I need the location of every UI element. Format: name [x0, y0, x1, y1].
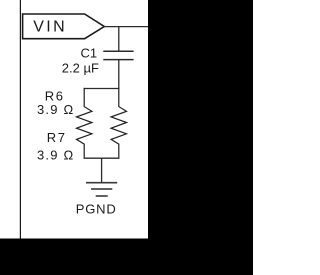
ground symbol bar 1 — [86, 182, 117, 184]
wire: resistor bottom rail — [84, 157, 120, 159]
svg-text:R7: R7 — [47, 130, 67, 145]
black mask bar (bottom) — [0, 239, 253, 275]
wire: VIN flag tip to right edge — [104, 26, 149, 28]
ground symbol bar 3 — [96, 195, 108, 197]
ground symbol bar 2 — [91, 188, 112, 190]
svg-text:VIN: VIN — [33, 19, 67, 36]
svg-text:3.9 Ω: 3.9 Ω — [37, 148, 74, 163]
wire: bottom rail to ground — [101, 158, 103, 182]
resistor R7 (right zigzag) — [111, 88, 126, 158]
resistor R6 (left zigzag) — [77, 88, 92, 158]
capacitor C1 top plate — [103, 50, 133, 52]
black mask block (right) — [148, 0, 253, 239]
net flag VIN (off-page connector) — [23, 14, 105, 39]
capacitor C1 bottom plate — [103, 59, 133, 61]
schematic border line (left, cropped) — [19, 0, 21, 239]
wire: resistor top rail — [84, 88, 119, 90]
svg-text:C1: C1 — [81, 45, 98, 60]
wire: C1 bottom to resistor top rail — [118, 60, 120, 89]
svg-text:2.2 µF: 2.2 µF — [62, 61, 99, 76]
svg-text:3.9 Ω: 3.9 Ω — [37, 102, 74, 117]
svg-text:PGND: PGND — [76, 201, 117, 216]
wire: junction down to C1 top — [118, 27, 120, 51]
